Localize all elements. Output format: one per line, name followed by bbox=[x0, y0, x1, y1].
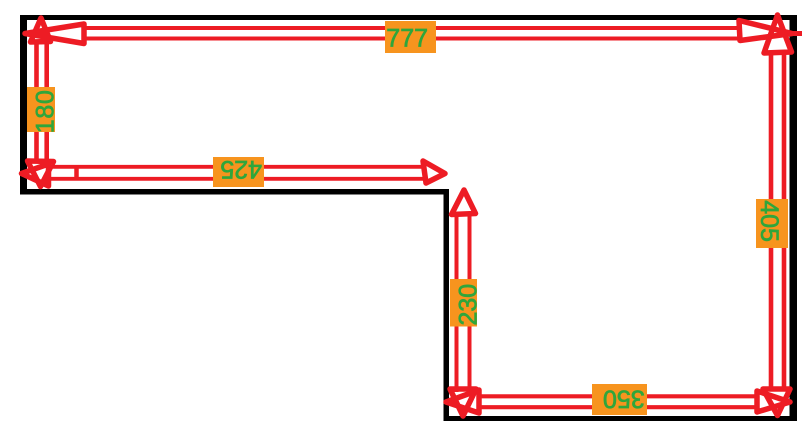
wall outline inner vertical bbox=[444, 189, 450, 421]
dimension arrow 230 bottom head bbox=[450, 389, 476, 416]
wall outline bottom bbox=[444, 416, 798, 421]
dimension arrow 777 left head bbox=[25, 24, 84, 44]
dimension arrow 180 bottom head bbox=[28, 161, 54, 187]
svg-text:405: 405 bbox=[755, 200, 783, 242]
wall outline right bbox=[790, 15, 798, 421]
dimension arrow 350 shaft bbox=[480, 396, 757, 407]
dimension arrow 180 shaft bbox=[37, 42, 47, 163]
label 425 bbox=[213, 155, 264, 187]
dimension arrow 425 left head bbox=[22, 164, 49, 186]
svg-text:777: 777 bbox=[386, 25, 428, 53]
svg-text:180: 180 bbox=[32, 89, 60, 133]
dimension arrow 230 shaft bbox=[457, 214, 470, 392]
label 350 bbox=[592, 384, 647, 415]
dimension arrow 180 top head bbox=[31, 18, 51, 42]
dimension arrow 425 tick bbox=[74, 165, 79, 180]
dimension arrow 425 right head bbox=[423, 161, 445, 183]
wall outline inner horizontal bbox=[20, 189, 449, 195]
svg-text:350: 350 bbox=[603, 384, 645, 412]
dimension arrow 405 bottom head bbox=[763, 389, 790, 416]
dimension arrow 405 shaft bbox=[771, 53, 784, 389]
wall outline top bbox=[20, 15, 797, 20]
dimension arrow 425 shaft bbox=[50, 167, 424, 179]
label 777 bbox=[385, 21, 436, 53]
dimension arrow 350 right head bbox=[757, 391, 790, 412]
dimension arrow 350 left head bbox=[446, 390, 479, 413]
wall outline left bbox=[20, 15, 27, 194]
svg-text:425: 425 bbox=[220, 155, 262, 183]
label 180 bbox=[27, 87, 60, 133]
label 405 bbox=[755, 199, 788, 248]
dimension arrow 777 right head bbox=[739, 21, 792, 41]
dimension arrow 405 top head bbox=[764, 15, 792, 53]
dimension arrow 777 shaft bbox=[84, 28, 739, 39]
dimension arrow 230 top head bbox=[452, 190, 476, 215]
label 230 bbox=[450, 279, 483, 327]
svg-text:230: 230 bbox=[455, 284, 483, 326]
